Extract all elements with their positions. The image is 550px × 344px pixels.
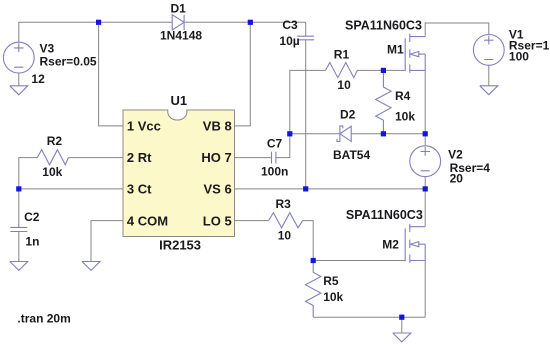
svg-text:VS 6: VS 6 <box>204 182 232 197</box>
svg-text:C7: C7 <box>267 137 283 151</box>
svg-text:R5: R5 <box>323 274 339 288</box>
wire R3 to M2 gate corner <box>303 221 314 261</box>
wire R2 right to pin 2 <box>68 157 123 159</box>
label V3 value <box>31 42 96 86</box>
svg-text:10k: 10k <box>42 165 62 179</box>
label C2 <box>24 210 40 249</box>
diode D1 <box>172 15 184 30</box>
label C7 <box>261 137 288 179</box>
wire Ct node to pin 3 <box>19 188 123 190</box>
wire M2 source down <box>424 261 426 318</box>
label R4 <box>395 89 415 123</box>
svg-text:BAT54: BAT54 <box>333 148 370 162</box>
svg-text:M1: M1 <box>387 42 404 56</box>
svg-text:HO 7: HO 7 <box>201 150 231 165</box>
wire D2 row left <box>290 133 340 135</box>
svg-text:VB 8: VB 8 <box>203 119 232 134</box>
resistor R2 <box>37 150 68 165</box>
label R3 <box>276 197 292 243</box>
wire V2 bottom stub <box>424 177 426 189</box>
node junction C3 bottom VS rail <box>303 186 308 191</box>
svg-text:20: 20 <box>450 172 464 186</box>
label V1 <box>509 27 550 63</box>
wire M1 source down to switch node <box>424 70 426 133</box>
voltage source V2 <box>410 146 441 177</box>
svg-text:C3: C3 <box>282 18 298 32</box>
svg-text:SPA11N60C3: SPA11N60C3 <box>345 19 422 33</box>
voltage source V3 <box>3 42 34 73</box>
svg-text:SPA11N60C3: SPA11N60C3 <box>346 208 423 222</box>
svg-text:4 COM: 4 COM <box>127 213 168 228</box>
wire COM pin 4 to ground <box>91 221 123 262</box>
label M2 <box>346 208 423 252</box>
label R2 <box>42 134 62 179</box>
wire M2 bottom row to R5 <box>313 316 425 318</box>
capacitor C7 <box>272 152 276 164</box>
ground below C2 <box>10 262 28 271</box>
op-amp U1 IR2153 body <box>123 109 235 236</box>
svg-text:V2: V2 <box>448 147 463 161</box>
wire V1 bottom to ground <box>488 65 490 86</box>
svg-text:M2: M2 <box>382 238 399 252</box>
svg-text:R4: R4 <box>395 89 411 103</box>
wire C7 to R1 row riser <box>276 70 326 157</box>
node junction V2 bottom M2 drain <box>423 186 428 191</box>
wire R1 to M1 gate <box>357 69 405 71</box>
svg-text:10k: 10k <box>395 110 415 124</box>
resistor R3 <box>269 213 303 228</box>
wire LO pin 5 to R3 <box>235 220 269 222</box>
wire V3 bottom to ground <box>18 73 20 86</box>
wire VB pin 8 up to top rail <box>235 22 251 126</box>
svg-text:10k: 10k <box>323 290 343 304</box>
svg-text:U1: U1 <box>171 93 188 108</box>
svg-text:10: 10 <box>278 229 292 243</box>
label V2 <box>448 147 490 185</box>
transistor M2 <box>405 224 425 263</box>
wire V2 top stub <box>424 134 426 146</box>
ground below M2 source <box>393 333 411 342</box>
node junction R4 bottom D2 <box>381 131 386 136</box>
label D2 <box>333 107 370 162</box>
wire M2 gate row <box>313 260 405 262</box>
wire D2 row right to switch node <box>351 133 425 135</box>
node junction top rail VB <box>248 20 253 25</box>
wire R2 left corner down <box>19 158 38 228</box>
svg-text:D1: D1 <box>171 2 187 16</box>
wire Vcc drop from top rail to pin 1 <box>99 22 123 126</box>
capacitor C2 <box>10 227 27 231</box>
node junction Ct R2 C2 <box>16 186 21 191</box>
wire C2 bottom to ground <box>18 232 20 262</box>
svg-text:1N4148: 1N4148 <box>160 29 202 43</box>
svg-text:1 Vcc: 1 Vcc <box>127 119 161 134</box>
wire ground stub below bottom row <box>401 317 403 333</box>
node junction top rail Vcc <box>96 20 101 25</box>
label D1 <box>160 2 202 43</box>
ground below V3 <box>10 86 28 95</box>
capacitor C3 <box>297 36 314 40</box>
node junction R1 R4 gate <box>381 68 386 73</box>
node junction C7 riser D2 <box>287 131 292 136</box>
svg-text:2 Rt: 2 Rt <box>127 150 152 165</box>
node junction M2 source ground <box>399 315 404 320</box>
label R1 <box>334 48 351 92</box>
node junction R3 R5 M2 gate <box>311 258 316 263</box>
wire HO pin 7 to C7 <box>235 157 272 159</box>
svg-text:R2: R2 <box>47 134 63 148</box>
ground below COM <box>82 262 100 271</box>
wire top rail from V3 through D1 to C3 corner <box>19 22 306 42</box>
wire C3 bottom to VS rail <box>305 40 307 189</box>
label C3 <box>279 18 299 48</box>
transistor M1 <box>405 34 425 73</box>
wire M1 drain up and right to V1 <box>425 23 489 37</box>
wire VS rail pin 6 to switch node <box>235 188 426 190</box>
ground below V1 <box>480 86 498 95</box>
svg-text:10µ: 10µ <box>279 34 299 48</box>
label R5 <box>323 274 343 304</box>
svg-text:12: 12 <box>31 72 45 86</box>
svg-text:1n: 1n <box>25 235 39 249</box>
svg-text:3 Ct: 3 Ct <box>127 182 152 197</box>
svg-text:10: 10 <box>337 78 351 92</box>
wire M2 drain up to VS rail <box>424 189 426 227</box>
svg-text:100: 100 <box>509 50 529 64</box>
voltage source V1 <box>473 35 504 66</box>
svg-text:R1: R1 <box>334 48 350 62</box>
label M1 <box>345 19 422 57</box>
diode D2 schottky <box>337 126 351 142</box>
svg-text:LO 5: LO 5 <box>203 213 232 228</box>
svg-text:D2: D2 <box>340 107 356 121</box>
resistor R5 <box>306 261 321 318</box>
svg-text:.tran 20m: .tran 20m <box>17 311 70 325</box>
resistor R1 <box>326 63 358 78</box>
svg-text:IR2153: IR2153 <box>159 238 201 253</box>
svg-text:R3: R3 <box>276 197 292 211</box>
svg-text:100n: 100n <box>261 165 288 179</box>
svg-text:C2: C2 <box>24 210 40 224</box>
wire C3 top stub <box>305 22 307 36</box>
resistor R4 <box>376 70 391 133</box>
node junction switch node V2 top <box>423 131 428 136</box>
svg-text:Rser=0.05: Rser=0.05 <box>40 54 97 68</box>
